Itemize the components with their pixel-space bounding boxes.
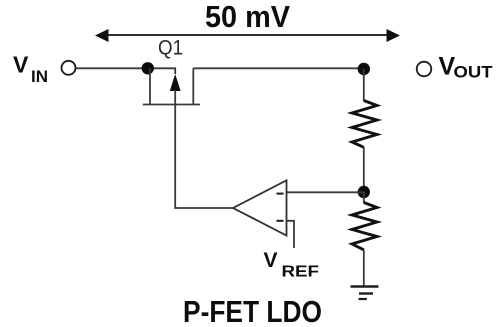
wire VIN to Q1 source node <box>76 67 176 69</box>
dimension arrow (dropout span) <box>95 29 400 42</box>
wire R2 to ground <box>363 250 365 287</box>
resistor R1 <box>352 101 377 148</box>
wire R1 to feedback node <box>363 147 365 192</box>
svg-text:IN: IN <box>31 67 48 86</box>
wire Q1 drain to VOUT node <box>193 67 364 69</box>
transistor Q1 <box>143 68 200 104</box>
op-amp U1 <box>233 180 287 235</box>
wire feedback node to R2 <box>363 192 365 203</box>
svg-text:V: V <box>13 52 29 78</box>
label VIN <box>13 52 48 87</box>
wire feedback node to op-amp inverting input <box>287 191 364 193</box>
wire op-amp output to Q1 gate <box>175 90 233 208</box>
svg-text:V: V <box>264 249 278 272</box>
wire VOUT node to R1 <box>363 69 365 101</box>
node VOUT junction <box>358 63 370 75</box>
label VREF <box>264 249 320 281</box>
svg-text:50 mV: 50 mV <box>205 0 290 34</box>
resistor R2 <box>352 203 377 250</box>
node feedback junction <box>358 186 370 198</box>
label VOUT <box>439 53 494 82</box>
ground <box>351 287 379 300</box>
node source junction <box>142 62 154 74</box>
terminal VOUT <box>417 62 432 77</box>
svg-text:OUT: OUT <box>454 63 494 82</box>
terminal VIN <box>62 61 76 75</box>
svg-text:REF: REF <box>282 264 320 281</box>
svg-text:P-FET LDO: P-FET LDO <box>183 294 322 327</box>
wire op-amp non-inverting input to VREF <box>287 221 295 248</box>
svg-text:Q1: Q1 <box>158 37 183 60</box>
